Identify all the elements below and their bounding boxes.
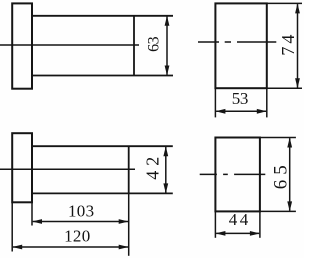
- dimension line 53: [216, 110, 266, 112]
- dim 63 arrow up: [165, 16, 170, 26]
- svg-text:120: 120: [64, 227, 90, 246]
- bottom-left view: shaft right edge: [128, 146, 130, 193]
- svg-text:103: 103: [68, 201, 94, 220]
- svg-text:42: 42: [143, 152, 163, 180]
- dim 53 arrow left: [215, 109, 225, 114]
- dimension line 42: [165, 147, 167, 193]
- dim 74 arrow up: [295, 3, 300, 13]
- top-left view: flange rectangle: [12, 3, 32, 88]
- bottom-left view: flange right edge extension for dim 103: [31, 202, 33, 225]
- dim 103 arrow right: [119, 219, 129, 224]
- bottom-right view: bottom extension line for dim 65: [260, 210, 296, 212]
- dim 44 arrow left: [215, 231, 225, 236]
- bottom-left view: flange left edge extension for dim 120: [11, 202, 13, 251]
- bottom-left view: shaft right edge extension for dims 103/120: [128, 193, 130, 255]
- dim 44 arrow right: [250, 231, 260, 236]
- dim 63 arrow down: [165, 66, 170, 76]
- bottom-right view: right extension line for dim 44: [259, 211, 261, 237]
- top-right view: end-view rectangle: [215, 3, 266, 88]
- top-left view: shaft top outline + extension line for dim 63: [32, 15, 173, 17]
- top-right view: left extension line for dim 53: [214, 88, 216, 117]
- dim 65 arrow up: [287, 138, 292, 148]
- dim 65 arrow down: [287, 201, 292, 211]
- bottom-left view: flange rectangle: [12, 133, 32, 202]
- top-right view: top extension line for dim 74: [267, 2, 302, 4]
- dimension line 74: [297, 4, 299, 87]
- svg-text:65: 65: [270, 160, 291, 189]
- bottom-left view: shaft bottom outline + extension for dim 42: [32, 192, 173, 194]
- svg-text:53: 53: [232, 89, 248, 108]
- top-right view: dashed centerline: [198, 41, 276, 43]
- top-right view: bottom extension line for dim 74: [267, 87, 302, 89]
- dimension line 44: [216, 232, 259, 234]
- top-left view: shaft right edge: [133, 16, 135, 76]
- svg-text:74: 74: [278, 32, 298, 56]
- svg-text:63: 63: [146, 36, 163, 52]
- top-right view: right extension line for dim 53: [266, 88, 268, 117]
- dim 120 arrow left: [12, 245, 22, 250]
- svg-text:44: 44: [229, 210, 251, 229]
- bottom-right view: top extension line for dim 65: [260, 137, 296, 139]
- bottom-left view: shaft top outline + extension for dim 42: [32, 145, 173, 147]
- dim 53 arrow right: [257, 109, 267, 114]
- bottom-right view: end-view rectangle: [215, 138, 260, 212]
- bottom-right view: left extension line for dim 44: [214, 211, 216, 237]
- dim 74 arrow down: [295, 78, 300, 88]
- dim 103 arrow left: [32, 219, 42, 224]
- top-left view: shaft bottom outline + extension line for dim 63: [32, 75, 173, 77]
- dimension line 63: [166, 17, 168, 75]
- dimension line 120: [13, 246, 128, 248]
- dimension line 103: [33, 221, 128, 223]
- bottom-left view: horizontal centerline: [0, 168, 135, 170]
- dim 42 arrow up: [163, 146, 168, 156]
- bottom-right view: dashed centerline: [200, 173, 266, 175]
- dim 42 arrow down: [163, 183, 168, 193]
- top-left view: horizontal centerline: [0, 44, 139, 46]
- dimension line 65: [289, 138, 291, 211]
- dim 120 arrow right: [119, 245, 129, 250]
